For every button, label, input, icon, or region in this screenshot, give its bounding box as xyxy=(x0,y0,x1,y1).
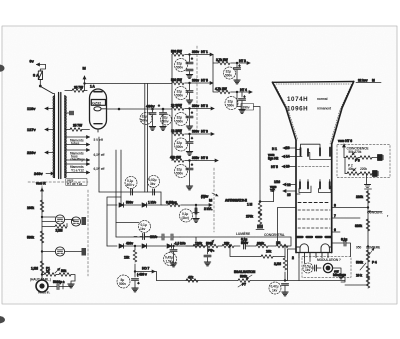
svg-text:ASTIGMAT.S-E: ASTIGMAT.S-E xyxy=(225,199,248,203)
pin 7 stub xyxy=(332,214,360,218)
diode D1 xyxy=(107,201,141,208)
svg-text:390v: 390v xyxy=(192,130,199,134)
wire bottom right bus xyxy=(345,284,368,286)
node 380v HT1 xyxy=(189,50,213,55)
svg-text:390v: 390v xyxy=(192,104,199,108)
tube V2 oscillator xyxy=(42,215,72,224)
tap 127v xyxy=(27,127,55,132)
resistor 22k bus xyxy=(222,242,234,248)
resistor 47k xyxy=(186,276,198,283)
svg-text:+: + xyxy=(191,111,193,115)
resistor 270k astig xyxy=(246,211,264,230)
svg-text:220k: 220k xyxy=(360,167,367,171)
wire mid rail xyxy=(107,197,121,246)
capacitor 0,45u 1,5kv xyxy=(164,245,178,267)
node HT3b xyxy=(236,59,250,64)
svg-text:480v: 480v xyxy=(126,242,133,246)
svg-text:500v: 500v xyxy=(176,172,183,176)
capacitor 0,1u 1kv xyxy=(116,221,157,240)
svg-text:(2)kv: (2)kv xyxy=(201,195,208,199)
pin Y1 left xyxy=(270,180,296,197)
svg-text:1 M: 1 M xyxy=(247,203,253,207)
svg-text:12: 12 xyxy=(287,183,291,187)
wire HV top rail xyxy=(99,191,161,193)
EHT transformer primary xyxy=(71,217,86,226)
svg-text:1kv: 1kv xyxy=(272,289,277,293)
svg-text:1074H: 1074H xyxy=(287,96,308,103)
node 0V mains input xyxy=(30,59,46,72)
svg-text:1,2M: 1,2M xyxy=(31,267,38,271)
svg-text:HT 2: HT 2 xyxy=(201,104,208,108)
transformer T1 primary winding xyxy=(53,96,54,178)
svg-text:10k: 10k xyxy=(266,250,271,254)
resistor 1,2M xyxy=(31,261,44,275)
svg-text:500v: 500v xyxy=(119,282,126,286)
pot P1 1k xyxy=(42,267,56,277)
winding filaments tubes 5V xyxy=(66,137,104,146)
diode D3 xyxy=(107,242,141,249)
tap 110v xyxy=(27,106,55,111)
wire HT3 branch down xyxy=(213,63,218,92)
svg-text:1 A: 1 A xyxy=(90,85,95,89)
label vers HT de Y1a xyxy=(66,179,87,187)
resistor 120k bus xyxy=(186,242,206,248)
resistor 10k chain xyxy=(356,266,370,288)
tap 240v xyxy=(34,171,54,176)
svg-text:500v: 500v xyxy=(126,201,133,205)
resistor 270k xyxy=(358,156,378,160)
svg-text:1096H: 1096H xyxy=(287,106,308,113)
svg-text:10 k: 10 k xyxy=(356,274,362,278)
node 385v HT6 xyxy=(189,156,218,161)
node 390v HT2 xyxy=(189,104,214,109)
svg-text:500v: 500v xyxy=(227,104,234,108)
svg-text:3kv: 3kv xyxy=(150,182,155,186)
capacitor 0,1u 600v xyxy=(125,177,137,196)
capacitor 8u 500v xyxy=(117,275,140,292)
pin 6 stub xyxy=(332,228,340,232)
svg-text:CONCENTRA.: CONCENTRA. xyxy=(264,233,285,237)
svg-text:500v: 500v xyxy=(141,119,148,123)
resistor 25 ohm 7W bottom xyxy=(65,124,90,132)
resistor center-tap xyxy=(65,111,74,115)
svg-text:0,2Meg: 0,2Meg xyxy=(166,201,177,205)
dashed box coincidence xyxy=(337,145,390,178)
svg-text:HO 7: HO 7 xyxy=(142,267,150,271)
svg-text:CONCENT.: CONCENT. xyxy=(367,211,383,215)
capacitor 0,47u 1kv xyxy=(269,282,289,296)
resistor R3 2k 30W xyxy=(171,104,196,111)
pin H1 13 xyxy=(272,146,296,151)
wire plate top bus to ladder xyxy=(85,83,173,85)
resistor 220k coincidence xyxy=(359,172,373,176)
wire bus row xyxy=(196,237,291,246)
svg-text:P 4: P 4 xyxy=(372,261,377,265)
resistor R1 500 5W xyxy=(171,50,196,57)
svg-text:1kv: 1kv xyxy=(305,268,310,272)
svg-text:390v: 390v xyxy=(243,106,250,110)
svg-text:HT 4: HT 4 xyxy=(240,88,247,92)
node CONCENT arrow xyxy=(367,211,389,219)
node HT7 -480 xyxy=(135,267,155,277)
resistor 820k bus xyxy=(256,242,268,248)
capacitor C1 32u 500v xyxy=(140,109,156,130)
resistor P4 500k pot xyxy=(356,250,377,270)
svg-text:950: 950 xyxy=(356,246,361,250)
svg-text:H 1: H 1 xyxy=(272,147,277,151)
capacitor 0,02u 3kv xyxy=(148,84,162,206)
capacitor C4 32u 500v xyxy=(175,83,194,104)
deflection plates Y xyxy=(296,180,331,195)
switch S1 xyxy=(39,85,54,96)
resistor R2 580 5W xyxy=(171,78,196,85)
svg-text:M: M xyxy=(372,79,375,83)
resistor 25 ohm 7W top xyxy=(72,86,84,93)
ground modulation xyxy=(333,268,345,282)
svg-text:25 7W: 25 7W xyxy=(73,124,83,128)
node 390v to CRT xyxy=(237,92,260,202)
capacitor 0,1u 500v bus xyxy=(241,238,249,250)
CRT V1 1074H funnel xyxy=(273,82,354,253)
svg-text:390v: 390v xyxy=(192,79,199,83)
label CRT types xyxy=(287,96,332,113)
resistor 0,2Meg xyxy=(162,201,197,207)
capacitor modulation xyxy=(303,263,321,273)
resistor R4 1k 20W xyxy=(171,129,196,136)
svg-text:HT 1: HT 1 xyxy=(201,50,208,54)
resistor ASTIGMATISME 1M xyxy=(225,187,296,246)
label COINCIDENCE xyxy=(347,147,370,155)
svg-text:385v: 385v xyxy=(192,156,199,160)
svg-text:12k: 12k xyxy=(124,256,129,260)
svg-text:+: + xyxy=(138,282,140,286)
svg-text:rémanent: rémanent xyxy=(317,107,332,111)
connector J1 coax xyxy=(36,275,48,293)
node 2kv astig xyxy=(201,193,218,199)
fuse F1 3A xyxy=(33,71,43,85)
svg-text:+: + xyxy=(191,163,193,167)
transformer T1 secondary winding xyxy=(65,96,66,178)
svg-text:LUMIÈRE: LUMIÈRE xyxy=(236,231,251,236)
node 950 LUMIERE xyxy=(356,246,381,256)
svg-text:500v: 500v xyxy=(176,120,183,124)
svg-text:1/16: 1/16 xyxy=(274,180,280,184)
node HT4 xyxy=(236,88,252,93)
resistor R5 43k 6W xyxy=(170,156,196,163)
winding filaments THT 6,3V xyxy=(66,150,105,161)
svg-text:(2kv): (2kv) xyxy=(182,216,189,220)
svg-text:normal: normal xyxy=(317,97,328,101)
svg-text:P 3: P 3 xyxy=(355,159,360,163)
svg-text:50k: 50k xyxy=(61,269,66,273)
rectifier tube U1 GZ32 xyxy=(90,89,107,132)
svg-text:chauffage: chauffage xyxy=(70,157,85,161)
svg-text:6,3V eff: 6,3V eff xyxy=(94,153,106,157)
tube base pins xyxy=(285,249,332,281)
wire cathode to 400v node xyxy=(107,108,173,110)
svg-text:M: M xyxy=(83,66,86,71)
svg-text:2,2M: 2,2M xyxy=(56,229,63,233)
svg-text:6,3V eff: 6,3V eff xyxy=(94,167,106,171)
wire top cap rail xyxy=(121,84,145,206)
resistor 2,2M right xyxy=(274,246,287,281)
connector J4 xyxy=(373,171,379,177)
wire left divider xyxy=(41,196,43,280)
svg-text:1 kVe: 1 kVe xyxy=(148,201,156,205)
svg-text:tubes: tubes xyxy=(71,142,80,146)
svg-text:32 kev: 32 kev xyxy=(358,79,368,83)
svg-text:500k: 500k xyxy=(240,275,247,279)
pot P7 EGALISATION 500k xyxy=(234,270,256,287)
blob left edge top xyxy=(0,65,5,72)
dashed boundary EHT box xyxy=(28,46,214,276)
capacitor bus 2 xyxy=(160,234,180,240)
svg-text:GZ32: GZ32 xyxy=(92,100,102,105)
tube V3 xyxy=(42,247,86,256)
capacitor P6 wiper ground xyxy=(204,246,215,266)
svg-text:EGALISATION: EGALISATION xyxy=(234,270,256,274)
capacitor 0,1u 2kv xyxy=(180,205,200,222)
wire right divider chain xyxy=(367,174,369,286)
svg-text:820k: 820k xyxy=(355,224,362,228)
capacitor C8 32u 500v xyxy=(224,63,241,84)
svg-text:220k: 220k xyxy=(356,195,363,199)
svg-text:HT de Y1a: HT de Y1a xyxy=(67,182,82,186)
svg-text:P7: P7 xyxy=(242,283,246,287)
svg-text:43k 6W: 43k 6W xyxy=(170,156,182,160)
resistor R7 4,7k 2W xyxy=(215,87,237,94)
connector small cap top xyxy=(365,185,372,190)
wire HT secondary top xyxy=(65,90,87,92)
node 32 kev M xyxy=(356,79,381,83)
capacitor C3 32u 500v xyxy=(175,55,194,79)
label P2 40k 220k xyxy=(348,164,367,172)
svg-text:HT 3: HT 3 xyxy=(201,130,208,134)
resistor 2,2M osc xyxy=(42,224,67,233)
wire top bottom bus xyxy=(116,237,291,246)
svg-text:MODULATION ?: MODULATION ? xyxy=(317,258,341,262)
svg-text:500k: 500k xyxy=(356,261,363,265)
wire bus to HT7 xyxy=(155,272,157,281)
capacitor grid 0,1u xyxy=(332,238,351,257)
svg-text:(-480 v: (-480 v xyxy=(137,273,147,277)
svg-text:500v: 500v xyxy=(225,74,232,78)
resistor 10k mid xyxy=(229,245,285,258)
diode D4 xyxy=(142,244,166,248)
wire bottom bus EGALISATION xyxy=(157,280,346,282)
resistor P2 40k pot xyxy=(345,168,359,175)
svg-text:500v: 500v xyxy=(176,94,183,98)
svg-text:270k: 270k xyxy=(246,215,253,219)
node 390v HT5 xyxy=(189,79,213,84)
grid electrodes dashed xyxy=(297,203,331,238)
capacitor 5000p xyxy=(48,280,75,290)
node M vertical feed xyxy=(83,66,96,91)
capacitor C9 32u 500v xyxy=(225,92,246,113)
svg-text:7: 7 xyxy=(334,214,336,218)
connector J2 modulation coax xyxy=(323,263,346,277)
pin H2 14 xyxy=(268,153,296,161)
svg-text:+: + xyxy=(191,57,193,61)
resistor 12k xyxy=(124,246,137,277)
resistor 100k xyxy=(27,200,44,218)
pot 50k xyxy=(55,268,75,281)
svg-text:2 kVL: 2 kVL xyxy=(204,207,212,211)
svg-text:HT 5: HT 5 xyxy=(271,165,278,169)
svg-text:-1,5 kVe: -1,5 kVe xyxy=(174,242,186,246)
svg-text:100k: 100k xyxy=(27,206,34,210)
resistor 220k chain xyxy=(356,191,370,208)
svg-text:8: 8 xyxy=(334,204,336,208)
capacitor C6 32u 500v xyxy=(175,134,194,155)
wire crt cathode drop xyxy=(299,258,310,281)
diode D2 xyxy=(142,201,162,208)
svg-text:4,7k 2W: 4,7k 2W xyxy=(215,87,228,91)
transformer T1 core xyxy=(59,93,61,179)
svg-text:HT 6: HT 6 xyxy=(201,156,208,160)
svg-text:M: M xyxy=(209,198,212,203)
node vers HT6 xyxy=(338,139,352,158)
wire filament drop lines xyxy=(99,137,116,237)
svg-text:240v: 240v xyxy=(34,171,43,176)
node vers R arrow xyxy=(36,182,46,197)
wire HT1 branch down xyxy=(213,55,218,64)
svg-text:+: + xyxy=(191,137,193,141)
capacitor bus 1 xyxy=(162,234,170,240)
svg-text:560k: 560k xyxy=(27,236,34,240)
svg-text:HT 5: HT 5 xyxy=(201,79,208,83)
node 400v xyxy=(118,104,164,110)
capacitor C7 32u 500v xyxy=(175,161,194,190)
winding filaments Y1 a Y12 6,3V xyxy=(66,164,105,173)
svg-text:Y1 a Y12: Y1 a Y12 xyxy=(71,169,84,173)
svg-text:+: + xyxy=(158,104,160,108)
svg-text:lign H2: lign H2 xyxy=(268,157,279,161)
diode D5 xyxy=(167,242,196,249)
cathode heater loops xyxy=(297,244,332,252)
svg-text:600 v: 600 v xyxy=(127,183,135,187)
svg-text:500v: 500v xyxy=(176,145,183,149)
wire coincidence left xyxy=(344,158,346,174)
svg-text:vers HT 6: vers HT 6 xyxy=(338,139,352,143)
wire ladder bus xyxy=(171,55,173,161)
svg-text:5 V eff: 5 V eff xyxy=(94,138,104,142)
resistor R6 2,7k 5W xyxy=(216,58,237,65)
tap 220v xyxy=(27,150,55,155)
svg-text:500v: 500v xyxy=(162,120,169,124)
svg-text:15: 15 xyxy=(287,193,291,197)
node M 2kV output xyxy=(196,198,212,212)
capacitor C5 32u 500v xyxy=(175,109,194,130)
node 390v HT3 xyxy=(189,130,214,135)
capacitor C2 32u 500v xyxy=(158,104,172,130)
resistor 1/8 bus xyxy=(276,241,288,248)
svg-text:6: 6 xyxy=(334,228,336,232)
resistor 560k xyxy=(27,231,44,252)
svg-text:500v: 500v xyxy=(176,66,183,70)
svg-text:25 7W: 25 7W xyxy=(74,86,84,90)
svg-text:110v: 110v xyxy=(27,106,36,111)
svg-text:500v: 500v xyxy=(241,241,248,245)
pot P6 500k xyxy=(206,240,218,253)
svg-text:380v: 380v xyxy=(192,50,199,54)
svg-text:2,2M: 2,2M xyxy=(274,262,281,266)
svg-text:220v: 220v xyxy=(27,150,36,155)
svg-text:HT 3: HT 3 xyxy=(239,59,246,63)
svg-text:40k: 40k xyxy=(348,167,353,171)
dashed box modulation xyxy=(302,257,351,278)
pin 8 stub xyxy=(332,204,368,208)
resistor 820k chain xyxy=(355,219,370,231)
deflection plates X xyxy=(296,144,332,159)
svg-text:2: 2 xyxy=(292,256,294,260)
blob left edge bottom xyxy=(0,316,5,323)
label modulation input xyxy=(30,278,51,295)
svg-text:vers R: vers R xyxy=(36,182,46,186)
svg-text:127v: 127v xyxy=(27,127,36,132)
resistor P3 50k pot xyxy=(344,152,360,163)
pin HT5 10 xyxy=(271,165,330,170)
svg-text:1kv: 1kv xyxy=(140,227,145,231)
connector J3 xyxy=(378,155,384,161)
